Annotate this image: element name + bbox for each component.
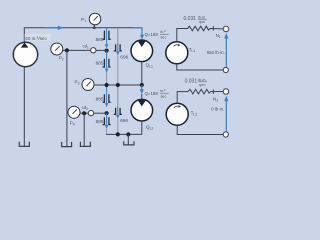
wire: shaft T_L1 top (177, 29, 188, 42)
wire: middle rail (94, 84, 142, 86)
wire: shaft T_L2 top (177, 92, 188, 104)
shaft tick at N2 side (212, 90, 214, 94)
svg-text:lb-in.: lb-in. (198, 78, 206, 82)
wire: blue arrow into motor Q_L2 (140, 85, 144, 100)
node N2 (open) (223, 89, 229, 95)
wire: node line 1 (y=50.4) (63, 49, 91, 51)
svg-text:Q=188: Q=188 (145, 91, 159, 96)
orifice column B (696, x=117.8) (114, 28, 122, 85)
svg-text:885: 885 (96, 96, 104, 102)
gauge P4 (68, 106, 80, 118)
label 60 in.3/sec (25, 34, 51, 41)
junction dot at tap (65, 48, 69, 52)
orifice column D (696 lower branch, x=117.8) (114, 85, 122, 134)
pump P (flow source 60 in3/sec) (13, 42, 37, 66)
wire: tap line 2 down to tank 3 (83, 113, 85, 146)
junction dot on middle rail at motor stem (140, 83, 144, 87)
junction dot at tap 2 (82, 111, 86, 115)
gauge P1 (89, 13, 101, 29)
spring K2 (188, 89, 223, 94)
svg-text:Q=188: Q=188 (145, 32, 159, 37)
spring K1 (188, 26, 224, 31)
wire: tap line down to tank 2 (66, 50, 68, 146)
svg-text:696: 696 (120, 118, 128, 124)
orifice column C (885/885 lower branch, x=106.6) : upper orifice (103, 85, 111, 107)
junction dots on bottom rail (116, 132, 120, 136)
load inertia T_L2 (166, 103, 188, 125)
orifice column A (885/885, x=106.6) : upper orifice (103, 28, 111, 49)
svg-text:696: 696 (120, 54, 128, 60)
svg-text:0 lb-in.: 0 lb-in. (211, 107, 224, 112)
svg-text:885: 885 (96, 61, 104, 67)
svg-text:rpm: rpm (199, 83, 206, 87)
svg-text:cd1: cd1 (83, 44, 89, 50)
label 0.031 lb-in/rpm (bottom) (185, 78, 207, 87)
label Q=188 in3/sec (top) (145, 29, 169, 39)
wire: blue segment into motor Q_L1 (135, 28, 145, 40)
wire: motor2 to bottom rail (141, 121, 143, 134)
gauge P2 (51, 43, 63, 55)
node cd1 (open) (91, 48, 96, 53)
motor Q_L2 (131, 99, 153, 121)
gauge P3 (82, 79, 94, 91)
tank 4 (124, 134, 134, 145)
wire: top supply rail (24, 28, 142, 43)
torque source 0 lb-in arrow (224, 96, 228, 135)
svg-text:0.031: 0.031 (185, 79, 198, 85)
node dot cd2 junction (105, 111, 109, 115)
orifice column C : lower orifice (103, 113, 111, 134)
wire: pump return down (23, 67, 25, 146)
wire: motor1 to middle rail (141, 62, 143, 85)
svg-text:885: 885 (96, 119, 104, 125)
junction dots on middle rail at columns (105, 83, 109, 87)
torque source 650 lb-in arrow (224, 33, 228, 70)
wire: bottom rail (106, 133, 142, 135)
svg-text:60 in.3/sec: 60 in.3/sec (25, 36, 47, 41)
motor Q_L1 (131, 40, 153, 62)
wire: T_L1 bottom return (177, 64, 223, 70)
node (open) below N1 (223, 67, 228, 72)
shaft tick at N1 side (212, 26, 214, 30)
node (open) below N2 (223, 132, 228, 137)
wire: T_L2 bottom return (177, 125, 223, 134)
label 0.031 lb-in/rpm (top) (184, 15, 207, 24)
node N1 (open) (223, 26, 229, 32)
svg-text:cd2: cd2 (82, 105, 88, 111)
node cd2 (open) (88, 110, 93, 115)
wire: node line 2 (y=113.2) (80, 112, 88, 114)
label Q=188 in3/sec (bottom) (145, 88, 169, 98)
orifice column A : lower orifice (103, 51, 111, 85)
svg-text:0.031: 0.031 (184, 16, 197, 22)
tank 3 (80, 142, 90, 147)
svg-text:885: 885 (96, 37, 104, 43)
flow arrow on top rail (45, 26, 64, 30)
svg-text:lb-in.: lb-in. (198, 15, 206, 19)
svg-text:rpm: rpm (199, 20, 206, 24)
tank 2 (62, 142, 72, 147)
svg-text:650 lb-in.: 650 lb-in. (207, 50, 225, 55)
svg-text:sec: sec (161, 35, 167, 39)
load inertia T_L1 (166, 42, 188, 64)
tank 1 (19, 142, 29, 147)
svg-text:sec: sec (161, 94, 167, 98)
node dot cd1 line junction (105, 49, 109, 53)
